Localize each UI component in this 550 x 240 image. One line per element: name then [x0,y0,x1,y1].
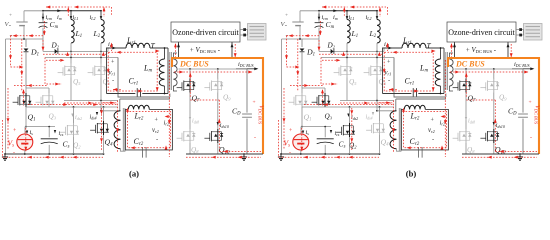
red path through Q10 [218,100,220,152]
top bridge rail [26,87,49,89]
red path through Vs [301,128,303,152]
red path Q5 branch [45,58,62,85]
svg-text:VDC BUS: VDC BUS [258,105,265,125]
rail up to tank1 [107,48,109,51]
transformer1 secondary [173,59,177,86]
mosfet Q2 [73,107,75,123]
tank1 left and top wire [383,48,403,94]
current iL2 [376,16,379,20]
wire Q2 source [73,137,75,154]
link down to transformer2 [100,101,102,111]
svg-text:+: + [9,13,12,19]
svg-text:+: + [13,128,16,134]
dc bus bottom rail [462,153,539,155]
ground dc bus [519,153,521,155]
mosfet Q1 [13,101,18,103]
elbow rail to tank2 [118,58,170,98]
red path tank2 loop [128,112,171,148]
inductor Lr2 [404,105,425,109]
electrode terminals [519,28,522,31]
transformer2 primary [390,111,396,149]
mosfet Q10 [204,137,209,139]
red path bridge mid rail [28,104,117,106]
capacitor Cm [42,11,44,22]
mosfet Q6 [376,58,378,65]
ozone cell electrode [524,24,543,41]
wire Q5 source down [346,78,348,101]
diode D2 on rail [43,50,108,52]
red path far left [2,120,4,157]
svg-text:-: - [156,136,158,143]
ozone-driven circuit box [171,22,240,42]
red path dc bus left side [444,60,446,157]
mosfet Q6 [100,58,102,65]
svg-text:-: - [254,136,256,142]
wire source minus down [299,26,301,39]
red path through Q2 [351,108,353,151]
svg-text:+: + [285,13,288,19]
magnetizing inductance Lm [440,48,442,59]
red path tank1 loop [108,52,157,91]
wire ozone right leg [231,42,233,58]
red path through Q7 [189,74,191,98]
diode D2 on rail [319,50,384,52]
capacitor Cr1 [136,88,138,96]
red path ozone legs [175,44,177,57]
mosfet Q7 [189,69,191,79]
current iL1 [346,16,349,20]
wire Q2 source [349,137,351,154]
red path top bridge rail [14,85,48,87]
inductor Lr1 [402,43,426,48]
red path tank2 loop [404,112,447,148]
wire Q6 source down [376,78,378,101]
svg-text:Ozone-driven circuit: Ozone-driven circuit [448,28,515,37]
dc bus bottom rail [186,153,263,155]
source rail [25,107,27,127]
tank2 box [125,109,172,149]
vertical VDC BUS label [258,105,265,125]
current iL1 [70,16,73,20]
capacitor CD [522,69,524,113]
left rail and diode D1 [42,39,44,51]
capacitor Cr2 [142,147,144,158]
red path through Vs [25,128,27,152]
red path through Q3 [322,90,324,106]
mosfet Q9 [217,69,219,79]
lower link rail [340,100,394,102]
inductor Lr1 [126,43,150,48]
svg-text:(b): (b) [406,169,417,179]
svg-text:VDC BUS: VDC BUS [534,105,541,125]
red path bridge mid rail [304,104,393,106]
red path top loop [322,6,348,8]
node Cm top [318,10,320,12]
source Vs [24,127,26,134]
lower-left feed wire [6,38,44,40]
red path D2 rail [43,53,106,55]
red path tank1 loop [384,52,433,91]
far left rail [5,39,7,154]
circuit state (a) [2,6,266,179]
magnetizing inductance Lm [164,48,166,59]
transformer2 core [122,108,124,151]
bridge mid rail [301,106,303,108]
electrode terminals [243,28,246,31]
mosfet Q7 [465,69,467,79]
wire source minus down [23,26,25,39]
inductor L1 [346,10,348,12]
mosfet Q4 [379,107,381,121]
wire source plus up [23,11,25,22]
red path top bridge rail [290,85,324,87]
svg-text:(a): (a) [129,169,139,179]
node Cm top [42,10,44,12]
source rail [301,107,303,127]
svg-text:DC BUS: DC BUS [455,60,485,69]
mosfet Q1 [289,101,294,103]
inductor L1 [70,10,72,12]
tank1 bottom wire [107,93,136,95]
svg-text:+ VDC BUS -: + VDC BUS - [190,47,221,54]
wire ozone left leg [454,42,456,58]
dc bus mid legs [189,93,191,130]
current iL2 [100,16,103,20]
capacitor Cr2 [418,147,420,158]
mosfet Q3 [36,101,41,103]
red path dc bus top [174,71,252,73]
red path through Q4 [101,108,103,151]
DC BUS frame [448,58,539,154]
ground left [4,153,6,155]
red path top loop [46,6,72,8]
capacitor Cs [48,127,50,138]
ozone cell electrode [248,24,267,41]
red path bottom rail [3,156,104,158]
top rail wire [300,10,319,12]
top rail wire [24,10,43,12]
ground dc bus [243,153,245,155]
mosfet Q10 [480,137,485,139]
red path transformer2 [393,101,395,153]
capacitor Cr1 [412,88,414,96]
bridge mid rail [25,106,27,108]
DC BUS frame [172,58,263,154]
source Vs [300,127,302,134]
svg-text:+: + [289,128,292,134]
dc bus bottom legs [465,143,467,154]
red path ozone legs [451,44,453,57]
top bridge rail [302,87,325,89]
dc bus mid legs [465,93,467,130]
tank1 bottom wire [383,93,412,95]
red path lower link [340,102,393,104]
red path dc bus top [450,71,528,73]
rail up to tank1 [383,48,385,51]
ozone-driven circuit box [447,22,516,42]
transformer1 core [443,48,445,94]
mosfet Q5 [70,58,72,65]
dc bus top wire [179,68,248,70]
inductor Lr2 [128,105,149,109]
circuit state (b) [278,6,542,179]
current icm arrow [318,14,320,19]
red path through Q7 [465,74,467,98]
inductor L2 [100,10,102,12]
svg-text:Ozone-driven circuit: Ozone-driven circuit [172,28,239,37]
svg-text:-: - [388,78,390,85]
mosfet Q3 [312,101,317,103]
svg-text:-: - [13,150,15,156]
capacitor Cs [324,127,326,138]
red path D2 rail [319,53,382,55]
red path lower link [64,102,117,104]
ground left [280,153,282,155]
red path far left [278,120,280,157]
left rail and diode D1 [318,39,320,51]
svg-text:+: + [253,100,256,106]
red path Q5 branch [321,58,338,85]
svg-text:+: + [529,100,532,106]
tank2 box [401,109,448,149]
transformer2 primary [114,111,120,149]
red path through Q10 [494,100,496,152]
wire Q6 source down [100,78,102,101]
mosfet Q8 [453,137,458,139]
mosfet Q9 [493,69,495,79]
svg-text:-: - [289,150,291,156]
bottom rail [5,153,104,155]
lower mid rail [321,57,394,59]
wire ozone right leg [507,42,509,58]
svg-text:-: - [432,136,434,143]
inductor L2 [376,10,378,12]
red path bottom rail [279,156,380,158]
red path dc bus left side [168,60,170,157]
lower link rail [64,100,118,102]
lower mid rail [45,57,118,59]
svg-text:-: - [530,136,532,142]
capacitor Cm [318,11,320,22]
current icm arrow [42,14,44,19]
mosfet Q2 [349,107,351,123]
red path source left [287,35,321,37]
svg-text:+ VDC BUS -: + VDC BUS - [466,47,497,54]
mosfet Q4 [103,107,105,121]
transformer2 core [398,108,400,151]
elbow rail to tank2 [394,58,446,98]
mosfet Q5 [346,58,348,65]
tank1 left and top wire [107,48,127,94]
mosfet Q8 [177,137,182,139]
far left rail [281,39,283,154]
wire Q5 source down [70,78,72,101]
wire Q4 source [103,135,105,154]
transformer1 core [167,48,169,94]
svg-text:DC BUS: DC BUS [179,60,209,69]
wire source plus up [299,11,301,22]
red path source left [11,35,45,37]
svg-text:-: - [112,78,114,85]
transformer1 secondary [449,59,453,86]
bottom rail [281,153,380,155]
lower-left feed wire [282,38,320,40]
dc bus bottom legs [189,143,191,154]
dc bus top wire [455,68,524,70]
red path transformer2 [117,101,119,153]
red path through Q1 [23,90,25,106]
capacitor CD [246,69,248,113]
wire ozone left leg [178,42,180,58]
wire Q4 source [379,135,381,154]
link down to transformer2 [376,101,378,111]
vertical VDC BUS label [534,105,541,125]
